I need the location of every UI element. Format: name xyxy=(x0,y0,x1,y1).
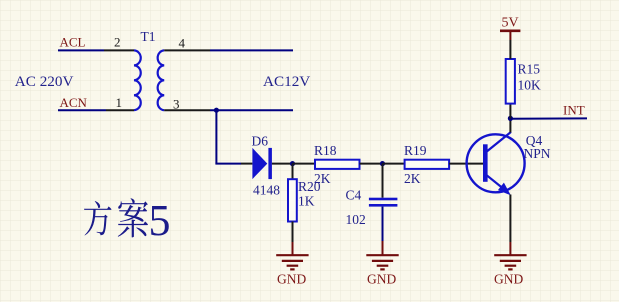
resistor R20 body xyxy=(288,179,297,221)
svg-text:T1: T1 xyxy=(141,29,156,44)
wire INT net xyxy=(510,117,587,119)
wire R18 to C4 node xyxy=(360,163,383,165)
ground symbol at R20 xyxy=(276,255,308,269)
diode D6 anode pin xyxy=(241,163,252,165)
capacitor C4 bottom plate xyxy=(369,204,398,207)
svg-text:2K: 2K xyxy=(314,171,331,186)
junction node diode/R20/R18 xyxy=(290,161,295,166)
ground symbol at C4 xyxy=(366,255,398,269)
svg-text:5: 5 xyxy=(149,196,171,245)
svg-text:GND: GND xyxy=(367,272,396,287)
wire pin3 line xyxy=(210,109,293,111)
svg-text:1: 1 xyxy=(116,95,123,110)
pin 3 of T1 xyxy=(164,109,210,111)
ground stub at C4 xyxy=(382,241,384,255)
junction dot on pin3 wire xyxy=(214,108,219,113)
svg-text:2K: 2K xyxy=(404,171,421,186)
junction node collector/R15/INT xyxy=(508,116,513,121)
capacitor C4 top plate xyxy=(369,198,398,201)
resistor R19 left pin xyxy=(383,163,405,165)
svg-text:C4: C4 xyxy=(346,188,362,203)
transistor Q4 emitter arrow xyxy=(498,183,511,196)
svg-text:102: 102 xyxy=(346,212,366,227)
svg-text:R15: R15 xyxy=(518,62,541,77)
wire vertical drop to diode row xyxy=(215,110,217,163)
svg-text:NPN: NPN xyxy=(524,146,551,161)
transistor Q4 emitter pin down xyxy=(509,195,511,243)
junction node R18/C4/R19 xyxy=(380,161,385,166)
svg-text:INT: INT xyxy=(563,103,585,118)
power stub 5V xyxy=(509,31,511,40)
wire R19 to Q4 base xyxy=(449,163,483,165)
svg-text:4: 4 xyxy=(179,36,186,51)
transistor Q4 collector stroke xyxy=(487,132,511,152)
transistor Q4 circle xyxy=(467,134,525,192)
svg-text:2: 2 xyxy=(114,35,121,50)
transistor Q4 base bar xyxy=(483,144,488,182)
pin 4 of T1 xyxy=(164,49,210,51)
resistor R20 bottom pin xyxy=(292,222,294,243)
svg-text:AC12V: AC12V xyxy=(263,73,310,90)
svg-text:1K: 1K xyxy=(298,194,315,209)
power bar 5V xyxy=(500,29,520,32)
wire ACN net xyxy=(58,109,106,111)
title character 方 xyxy=(84,201,112,236)
capacitor C4 bottom pin xyxy=(382,207,384,241)
collector pin up xyxy=(509,118,511,132)
diode D6 triangle xyxy=(252,148,267,179)
svg-text:R18: R18 xyxy=(314,143,337,158)
svg-text:5V: 5V xyxy=(502,16,519,31)
resistor R15 bottom pin xyxy=(509,104,511,119)
svg-text:ACL: ACL xyxy=(60,35,86,50)
svg-text:D6: D6 xyxy=(252,134,269,149)
wire ACL net xyxy=(58,49,104,51)
resistor R19 body xyxy=(405,160,450,169)
wire pin4 to AC12V xyxy=(210,49,293,51)
svg-text:R19: R19 xyxy=(404,143,427,158)
capacitor C4 top pin xyxy=(382,164,384,198)
svg-text:GND: GND xyxy=(277,272,306,287)
svg-text:10K: 10K xyxy=(518,78,542,93)
svg-text:ACN: ACN xyxy=(60,95,88,110)
diode D6 cathode pin xyxy=(272,163,293,165)
resistor R15 body xyxy=(506,59,515,104)
pin 2 of T1 xyxy=(104,49,134,51)
diode D6 cathode bar xyxy=(268,148,272,179)
pin 1 of T1 xyxy=(106,109,134,111)
title character 案 xyxy=(118,198,148,237)
resistor R15 top pin xyxy=(509,40,511,59)
svg-text:GND: GND xyxy=(494,272,523,287)
transformer T1 primary winding xyxy=(134,50,141,110)
ground stub at Q4 xyxy=(509,242,511,255)
resistor R18 left pin xyxy=(293,163,316,165)
svg-text:4148: 4148 xyxy=(253,183,280,198)
ground symbol at Q4 xyxy=(494,255,526,269)
resistor R18 body xyxy=(315,160,360,169)
resistor R20 top pin xyxy=(292,164,294,180)
ground stub at R20 xyxy=(292,242,294,255)
transistor Q4 emitter stroke xyxy=(487,175,505,190)
transformer T1 secondary winding xyxy=(158,50,165,110)
svg-text:AC 220V: AC 220V xyxy=(15,73,74,90)
wire to diode anode xyxy=(215,163,241,165)
